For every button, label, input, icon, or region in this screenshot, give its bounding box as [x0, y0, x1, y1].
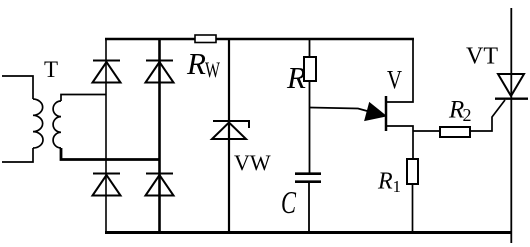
- zener diode VW: [212, 121, 249, 139]
- wire: zener branch vertical: [228, 38, 230, 232]
- svg-text:VT: VT: [466, 44, 498, 70]
- transformer T primary winding: [33, 99, 43, 148]
- svg-text:T: T: [44, 57, 58, 82]
- diode D3 (bridge bottom-left): [93, 174, 121, 196]
- svg-text:R: R: [186, 46, 206, 81]
- wire: capacitor to bottom rail: [308, 182, 310, 232]
- svg-text:2: 2: [463, 105, 472, 125]
- wire: bridge right column: [158, 38, 161, 232]
- capacitor C: [295, 174, 321, 182]
- wire: secondary bottom lead to bridge node (thick, crosses left column): [61, 148, 160, 160]
- transistor V (UJT bar): [385, 96, 388, 131]
- svg-text:W: W: [205, 57, 220, 82]
- wire: R-C branch vertical (top rail to capacitor): [309, 38, 311, 173]
- wire: bottom DC rail: [105, 231, 512, 234]
- wire: emitter lead with arrow into UJT: [310, 108, 370, 112]
- diode D1 (bridge top-left): [93, 61, 121, 83]
- resistor RW (box on top rail): [195, 35, 216, 43]
- wire: R1 to bottom rail: [412, 184, 414, 232]
- wire: UJT base-2 lead to top rail: [386, 38, 413, 102]
- svg-text:1: 1: [393, 177, 402, 196]
- resistor R (box): [304, 57, 316, 81]
- svg-text:V: V: [387, 66, 402, 95]
- svg-text:R: R: [286, 60, 306, 95]
- resistor R2 (box): [440, 127, 470, 137]
- svg-text:C: C: [281, 184, 296, 220]
- wire: bridge left column: [105, 38, 107, 232]
- wire: primary top lead of transformer: [2, 76, 33, 99]
- diode D2 (bridge top-right): [146, 61, 174, 83]
- wire: UJT base-1 lead down to R1: [386, 126, 413, 159]
- wire: primary bottom lead of transformer: [2, 148, 33, 162]
- wire: R2 to thyristor gate: [470, 100, 505, 131]
- svg-text:VW: VW: [234, 150, 271, 175]
- diode D4 (bridge bottom-right): [146, 174, 174, 196]
- resistor R1 (box): [407, 159, 418, 184]
- svg-text:R: R: [377, 169, 393, 195]
- thyristor VT: [495, 74, 528, 99]
- wire: base-1 node to R2: [413, 130, 440, 132]
- wire: secondary top lead to bridge node: [61, 95, 106, 102]
- transformer T secondary winding: [53, 101, 61, 148]
- arrowhead of UJT emitter: [365, 103, 386, 121]
- wire: top DC rail: [105, 38, 414, 40]
- wire: thyristor branch vertical: [510, 8, 512, 243]
